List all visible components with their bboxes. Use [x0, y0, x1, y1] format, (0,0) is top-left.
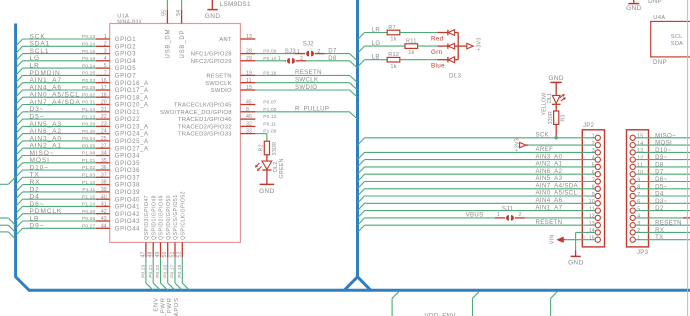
svg-text:AIN7_A4/SDA: AIN7_A4/SDA	[30, 99, 81, 106]
wire RESETN to bus	[255, 69, 357, 83]
svg-text:3: 3	[592, 148, 595, 154]
svg-text:40: 40	[101, 194, 107, 200]
svg-text:GPIO27_A: GPIO27_A	[115, 146, 149, 152]
pin label GPIO23_A	[115, 125, 149, 131]
svg-text:13: 13	[246, 34, 252, 40]
svg-text:QSPID0/GPIO50: QSPID0/GPIO50	[166, 195, 172, 240]
node JP3 pin 1 pad	[630, 236, 640, 243]
svg-text:45: 45	[246, 100, 252, 106]
supply +3V3 arrow (JP2 pin2)	[515, 138, 596, 152]
svg-text:GPIO25_A: GPIO25_A	[115, 139, 149, 145]
wire DL2 to GND	[266, 170, 268, 184]
svg-text:8: 8	[246, 107, 249, 113]
svg-text:47: 47	[140, 252, 146, 258]
wire JP3 pin 9 D6~	[636, 176, 690, 183]
svg-text:GPIO21: GPIO21	[115, 110, 140, 116]
svg-text:RESETN: RESETN	[536, 219, 563, 226]
pin label GPIO21	[115, 110, 140, 116]
node JP3 pin 5 pad	[630, 206, 640, 213]
svg-text:RESETN: RESETN	[295, 69, 322, 76]
svg-text:P1.14: P1.14	[82, 202, 95, 208]
wire left entry y218	[0, 218, 16, 225]
wire pin33 to R2	[255, 134, 267, 141]
svg-text:1: 1	[637, 236, 640, 242]
wire JP2 pin 1 SCK	[358, 132, 596, 146]
led DL3 Blue	[448, 57, 458, 63]
wire D4 / pin 40	[16, 194, 110, 207]
svg-text:RESETN: RESETN	[206, 74, 231, 80]
svg-text:37: 37	[101, 172, 107, 178]
svg-text:TX: TX	[655, 234, 664, 241]
net label ENV below bus	[154, 297, 160, 311]
svg-text:PDMCLK: PDMCLK	[30, 208, 63, 215]
svg-text:GPIO17_A: GPIO17_A	[115, 88, 149, 94]
svg-text:22: 22	[101, 114, 107, 120]
svg-text:+3V3: +3V3	[476, 37, 482, 51]
svg-text:3: 3	[637, 221, 640, 227]
pin label GPIO44	[115, 226, 140, 232]
pin label GPIO2	[115, 44, 136, 50]
svg-text:LG: LG	[372, 40, 381, 47]
pin label GPIO16_A	[115, 81, 149, 87]
svg-text:JP3: JP3	[637, 250, 649, 256]
wire to GND (U4A)	[633, 0, 635, 3]
svg-text:P0.22: P0.22	[155, 264, 161, 277]
pin label TRACECLK/GPIO45	[174, 103, 233, 109]
net label PWR below bus	[167, 297, 173, 313]
node JP2 pin 1 pad	[592, 134, 601, 141]
svg-text:AIN0_A5/SCL: AIN0_A5/SCL	[30, 92, 80, 99]
node JP2 pin 15 pad	[589, 236, 601, 243]
svg-text:APDS: APDS	[174, 297, 180, 316]
wire JP2 pin14 to GND	[576, 232, 596, 256]
svg-text:I_PWR: I_PWR	[160, 297, 166, 316]
svg-text:P0.03: P0.03	[82, 78, 95, 84]
svg-text:2: 2	[104, 41, 107, 47]
solder jumper SJ2	[285, 41, 325, 56]
svg-text:P1.08: P1.08	[82, 151, 95, 157]
node JP3 pin 9 pad	[630, 177, 640, 184]
pin label GPIO41	[115, 205, 140, 211]
svg-text:39: 39	[101, 187, 107, 193]
led DL3 Red	[448, 30, 458, 36]
svg-text:10: 10	[589, 199, 595, 205]
wire D8 to bus	[306, 55, 358, 68]
node JP2 pin 6 pad	[592, 170, 601, 177]
svg-text:33: 33	[246, 129, 252, 135]
svg-text:P1.11: P1.11	[82, 187, 95, 193]
svg-text:D6~: D6~	[30, 201, 45, 208]
wire bus left corner diagonal	[16, 277, 30, 291]
solder jumper SJ1	[495, 207, 525, 221]
svg-text:7: 7	[104, 71, 107, 77]
svg-text:41: 41	[101, 202, 107, 208]
pin label GPIO43	[115, 219, 140, 225]
wire JP3 pin 11 D8	[636, 161, 690, 168]
svg-text:29: 29	[246, 56, 252, 62]
wire AIN2_A1 / pin 27	[16, 143, 110, 156]
svg-text:DL3: DL3	[449, 72, 461, 79]
pin label QSPID1/GPIO48	[151, 195, 157, 240]
wire R12 to LED Blue	[400, 59, 448, 61]
pin label GPIO42	[115, 212, 140, 218]
svg-text:P0.28: P0.28	[82, 85, 95, 91]
wire SCL1 / pin 3	[16, 48, 110, 61]
svg-text:1k: 1k	[408, 50, 414, 56]
wire to GND top	[211, 0, 213, 9]
svg-text:GPIO7: GPIO7	[115, 74, 136, 80]
wire QSPI pin 52 P0.19 to bus	[177, 242, 190, 290]
wire USB top pin 55	[162, 0, 168, 24]
wire JP3 pin 3 RESETN	[636, 220, 690, 227]
svg-text:GPIO41: GPIO41	[115, 205, 140, 211]
svg-text:9: 9	[592, 192, 595, 198]
wire JP2 pin 4 AIN3_A0	[358, 153, 596, 167]
node JP2 pin 13 pad	[589, 221, 601, 228]
svg-text:38: 38	[101, 180, 107, 186]
svg-text:24: 24	[101, 129, 107, 135]
pin label GPIO38	[115, 183, 140, 189]
svg-text:8: 8	[592, 185, 595, 191]
wire TX / pin 37	[16, 172, 110, 185]
svg-text:P0.19: P0.19	[177, 264, 183, 277]
wire QSPI pin 47 P0.23 to bus	[140, 242, 153, 290]
svg-text:11: 11	[637, 163, 643, 169]
svg-text:6: 6	[592, 170, 595, 176]
svg-text:GPIO20_A: GPIO20_A	[115, 103, 149, 109]
led DL2 GREEN	[255, 158, 285, 178]
svg-text:LB: LB	[372, 54, 380, 61]
svg-text:P1.15: P1.15	[82, 194, 95, 200]
svg-text:DNP: DNP	[648, 0, 662, 5]
resistor R12 1k	[387, 52, 400, 70]
svg-text:ENV: ENV	[154, 297, 160, 311]
label U4A	[653, 15, 665, 21]
svg-text:P0.14: P0.14	[82, 42, 95, 48]
svg-text:P0.30: P0.30	[82, 129, 95, 135]
wire D9~ / pin 44	[16, 223, 110, 236]
svg-text:GPIO24_A: GPIO24_A	[115, 132, 149, 138]
svg-text:SCL: SCL	[671, 34, 683, 40]
node JP2 pin 7 pad	[592, 177, 601, 184]
svg-text:AIN0_A5/SCL: AIN0_A5/SCL	[536, 190, 578, 197]
svg-text:MOSI: MOSI	[30, 157, 50, 164]
wire branch below bus x472	[473, 291, 480, 316]
pin 45 stub right	[240, 100, 276, 106]
svg-text:5: 5	[637, 206, 640, 212]
svg-text:52: 52	[177, 252, 183, 258]
svg-text:18: 18	[101, 92, 107, 98]
svg-text:6: 6	[637, 199, 640, 205]
svg-text:GPIO37: GPIO37	[115, 175, 140, 181]
svg-text:P0.02: P0.02	[82, 92, 95, 98]
node JP2 pin 3 pad	[592, 148, 601, 155]
svg-text:AIN6_A2: AIN6_A2	[536, 168, 563, 175]
node JP3 pin 6 pad	[630, 199, 640, 206]
pin label SDA	[671, 41, 683, 47]
node JP3 pin 11 pad	[630, 163, 643, 170]
node JP2 pin 4 pad	[592, 155, 601, 162]
svg-text:5: 5	[104, 63, 107, 69]
connector JP2 box	[582, 130, 604, 247]
svg-text:AIN3_A0: AIN3_A0	[536, 153, 563, 160]
ground GND (JP2)	[568, 256, 584, 266]
svg-text:7: 7	[592, 177, 595, 183]
pin 28 stub right	[240, 49, 276, 55]
svg-text:36: 36	[101, 165, 107, 171]
wire JP2 pin 7 AIN5_A3	[358, 175, 596, 189]
svg-text:TX: TX	[30, 172, 40, 179]
wire PDMCLK / pin 42	[16, 208, 110, 221]
svg-text:LR: LR	[30, 63, 40, 70]
svg-text:P0.20: P0.20	[162, 264, 168, 277]
svg-text:GPIO34: GPIO34	[115, 154, 140, 160]
wire MOSI / pin 35	[16, 157, 110, 170]
svg-text:P0.16: P0.16	[82, 56, 95, 62]
svg-text:1: 1	[297, 49, 300, 55]
svg-text:AIN7_A4/SDA: AIN7_A4/SDA	[536, 183, 579, 190]
pin 29 stub right	[240, 56, 276, 62]
svg-text:GPIO39: GPIO39	[115, 190, 140, 196]
node JP2 pin 2 pad	[592, 141, 601, 148]
svg-text:D8: D8	[655, 161, 664, 168]
svg-text:GPIO43: GPIO43	[115, 219, 140, 225]
svg-text:TRACED1/GPIO46: TRACED1/GPIO46	[178, 117, 232, 123]
wire bus right vertical	[356, 0, 359, 278]
svg-text:P0.12: P0.12	[263, 114, 276, 120]
node JP2 pin 11 pad	[589, 206, 600, 213]
svg-text:D2: D2	[30, 186, 40, 193]
supply VIN arrow	[550, 235, 596, 245]
wire JP3 pin 12 D9~	[636, 154, 690, 161]
svg-text:MOSI: MOSI	[655, 140, 672, 147]
label DNP bottom	[653, 59, 667, 66]
label DNP top	[648, 0, 662, 5]
wire R2 to DL2	[266, 155, 268, 161]
svg-text:QSPICS/GPIO51: QSPICS/GPIO51	[173, 194, 179, 240]
svg-text:SWO/TRACE_DO/GPIO8: SWO/TRACE_DO/GPIO8	[160, 110, 232, 116]
wire LR from bus	[358, 26, 388, 40]
svg-text:D4: D4	[30, 194, 40, 201]
node JP3 pin 15 pad	[630, 134, 643, 141]
svg-text:2: 2	[637, 228, 640, 234]
wire MISO~ / pin 34	[16, 150, 110, 163]
svg-text:GPIO5: GPIO5	[115, 66, 136, 72]
wire JP3 pin 10 D7	[636, 169, 690, 176]
pin label GPIO3	[115, 52, 136, 58]
svg-text:NINA-B3X: NINA-B3X	[117, 20, 142, 26]
svg-text:AIN1_A7: AIN1_A7	[30, 77, 62, 84]
svg-text:GPIO40: GPIO40	[115, 197, 140, 203]
wire AIN4_A6 / pin 17	[16, 84, 110, 97]
svg-text:LG: LG	[30, 55, 41, 62]
svg-text:Grn: Grn	[431, 49, 443, 56]
svg-text:TRACED3/GPIO33: TRACED3/GPIO33	[178, 132, 232, 138]
wire JP3 pin 8 D5~	[636, 183, 690, 190]
svg-text:D2: D2	[655, 205, 664, 212]
wire JP3 pin 7 D4	[636, 191, 690, 198]
svg-text:34: 34	[101, 151, 107, 157]
svg-text:QSPID2/GPIO49: QSPID2/GPIO49	[159, 195, 165, 240]
svg-text:43: 43	[101, 216, 107, 222]
svg-text:2: 2	[592, 141, 595, 147]
svg-text:AIN3_A0: AIN3_A0	[30, 135, 62, 142]
wire JP2 pin 9 AIN0_A5/SCL	[358, 190, 596, 204]
resistor R3 330R	[548, 111, 566, 124]
svg-text:R7: R7	[388, 25, 396, 31]
svg-text:8: 8	[637, 185, 640, 191]
svg-text:SCL1: SCL1	[30, 48, 50, 55]
svg-text:GPIO23_A: GPIO23_A	[115, 125, 149, 131]
svg-text:GND: GND	[568, 260, 584, 267]
pin label USB_DM	[166, 29, 172, 59]
svg-text:SCK: SCK	[30, 33, 46, 40]
svg-text:GPIO2: GPIO2	[115, 44, 136, 50]
pin 46 stub right	[240, 114, 276, 120]
svg-text:D5~: D5~	[655, 183, 667, 190]
svg-text:QSPID1/GPIO48: QSPID1/GPIO48	[151, 195, 157, 240]
svg-text:49: 49	[155, 252, 161, 258]
svg-text:AIN1_A7: AIN1_A7	[536, 204, 563, 211]
net label APDS below bus	[174, 297, 180, 316]
pin label GPIO27_A	[115, 146, 149, 152]
pin label GPIO1	[115, 37, 136, 43]
svg-text:GPIO42: GPIO42	[115, 212, 140, 218]
wire D2 / pin 39	[16, 186, 110, 199]
svg-text:DNP: DNP	[653, 59, 667, 66]
svg-text:P0.04: P0.04	[82, 136, 95, 142]
label DL3	[449, 72, 461, 79]
pin label TRACED2/GPIO32	[178, 125, 232, 131]
svg-text:14: 14	[589, 228, 595, 234]
svg-text:D4: D4	[655, 191, 664, 198]
svg-text:GND: GND	[205, 13, 221, 20]
wire JP3 pin 13 D10~	[636, 147, 690, 154]
svg-text:D9~: D9~	[655, 154, 667, 161]
wire R_PULLUP to bus	[255, 106, 357, 120]
svg-text:P0.31: P0.31	[82, 100, 95, 106]
pin 32 stub right	[240, 122, 276, 128]
label JP2	[583, 123, 595, 129]
svg-text:35: 35	[101, 158, 107, 164]
svg-text:GND: GND	[259, 188, 275, 195]
wire SWDIO to bus	[255, 84, 357, 97]
svg-text:Red: Red	[431, 35, 444, 42]
svg-text:D8: D8	[328, 55, 337, 62]
pin label Red	[431, 35, 444, 42]
ground GND (top, LSM9DS1)	[205, 10, 221, 20]
wire R7 to LED Red	[400, 32, 448, 34]
wire QSPI pin 48 P0.21 to bus	[148, 242, 161, 290]
wire JP3 pin 4 supply	[636, 217, 690, 219]
svg-text:+3V3: +3V3	[515, 138, 521, 152]
pin label SCL	[671, 34, 683, 40]
svg-text:LR: LR	[372, 26, 381, 33]
wire VBUS from bus	[358, 212, 496, 226]
svg-text:SWDIO: SWDIO	[211, 88, 232, 94]
junction SCK/R3	[555, 136, 558, 139]
svg-text:51: 51	[169, 252, 175, 258]
label U1A	[117, 14, 129, 20]
wire LG / pin 4	[16, 55, 110, 68]
node JP3 pin 2 pad	[630, 228, 640, 235]
wire JP3 pin 6 D3~	[636, 198, 690, 205]
node JP2 pin 14 pad	[589, 228, 601, 235]
svg-text:ANT: ANT	[219, 37, 232, 43]
wire pin29 to SJ3	[255, 60, 284, 62]
wire branch below bus x392	[392, 291, 399, 316]
svg-text:11: 11	[246, 78, 252, 84]
svg-text:15: 15	[589, 236, 595, 242]
svg-text:10: 10	[637, 170, 643, 176]
pin label GPIO35	[115, 161, 140, 167]
node JP3 pin 14 pad	[630, 141, 643, 148]
svg-text:D10~: D10~	[30, 164, 49, 171]
svg-text:9: 9	[637, 177, 640, 183]
svg-text:23: 23	[101, 122, 107, 128]
node JP3 pin 7 pad	[630, 192, 640, 199]
pin label SWDIO	[211, 88, 232, 94]
wire JP2 pin 13 RESETN	[358, 219, 596, 233]
svg-text:1: 1	[497, 212, 500, 218]
wire AIN6_A2 / pin 24	[16, 128, 110, 141]
pin label GPIO17_A	[115, 88, 149, 94]
svg-text:3: 3	[104, 49, 107, 55]
svg-text:48: 48	[148, 252, 154, 258]
ground GND (U4A)	[626, 4, 642, 12]
pin label RESETN	[206, 74, 231, 80]
svg-text:P0.24: P0.24	[82, 63, 95, 69]
wire AIN5_A3 / pin 23	[16, 121, 110, 134]
wire LG from bus	[358, 40, 406, 54]
svg-text:SWDIO: SWDIO	[295, 84, 317, 91]
svg-text:19: 19	[246, 71, 252, 77]
svg-text:AIN5_A3: AIN5_A3	[536, 175, 563, 182]
svg-text:GPIO18_A: GPIO18_A	[115, 95, 149, 101]
svg-text:NFC2/GPIO29: NFC2/GPIO29	[191, 59, 232, 65]
svg-text:D6~: D6~	[655, 176, 667, 183]
resistor R2 330R	[258, 141, 277, 156]
wire DL1 to R3	[555, 104, 557, 111]
svg-text:P1.10: P1.10	[82, 180, 95, 186]
svg-text:D3~: D3~	[655, 198, 667, 205]
pin label GPIO34	[115, 154, 140, 160]
led DL3 Grn	[448, 43, 458, 49]
svg-text:4: 4	[104, 56, 107, 62]
svg-text:RESETN: RESETN	[655, 220, 682, 227]
svg-text:17: 17	[101, 85, 107, 91]
svg-text:1: 1	[592, 134, 595, 140]
svg-text:11: 11	[589, 206, 595, 212]
svg-text:28: 28	[246, 49, 252, 55]
svg-text:32: 32	[246, 122, 252, 128]
svg-text:P1.13: P1.13	[82, 114, 95, 120]
svg-text:R11: R11	[406, 39, 417, 45]
svg-text:GND: GND	[626, 5, 642, 12]
wire QSPI pin 50 P0.20 to bus	[162, 242, 175, 290]
svg-text:54: 54	[176, 10, 182, 16]
wire LB from bus	[358, 54, 388, 68]
wire R3 to SCK	[555, 124, 557, 137]
op-amp U4A box	[651, 21, 690, 57]
wire SWCLK to bus	[255, 77, 357, 91]
wire JP3 pin 2 RX	[636, 227, 690, 234]
svg-text:RX: RX	[655, 227, 664, 234]
svg-text:1k: 1k	[390, 64, 396, 70]
pin label TRACED3/GPIO33	[178, 132, 232, 138]
led DL1 YELLOW	[542, 93, 566, 116]
wire D10~ / pin 36	[16, 164, 110, 177]
